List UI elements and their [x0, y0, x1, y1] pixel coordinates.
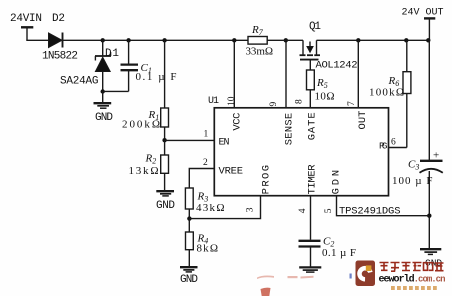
svg-text:eeworld.com.cn: eeworld.com.cn	[379, 274, 446, 286]
svg-text:0.1 µ F: 0.1 µ F	[136, 71, 177, 83]
svg-text:Q1: Q1	[309, 21, 321, 33]
ground below C2	[299, 267, 321, 272]
node junction D1	[101, 38, 105, 42]
svg-text:C3: C3	[408, 159, 419, 172]
svg-text:+: +	[433, 150, 439, 162]
resistor R4	[186, 219, 194, 267]
wire Q1 to OUT rail	[317, 39, 430, 41]
svg-text:AOL1242: AOL1242	[316, 60, 358, 72]
watermark blue tick	[350, 274, 352, 279]
diode D2	[49, 33, 63, 48]
svg-text:33mΩ: 33mΩ	[246, 46, 274, 58]
svg-text:R7: R7	[251, 24, 264, 37]
resistor R3	[185, 188, 193, 219]
svg-text:VREE: VREE	[219, 166, 244, 178]
svg-text:8kΩ: 8kΩ	[197, 243, 219, 255]
wire input to D2	[26, 39, 48, 41]
wire OUT pin7	[357, 40, 359, 108]
node 24VIN terminal	[21, 27, 33, 40]
svg-text:7: 7	[347, 101, 357, 106]
transistor Q1 MOSFET	[300, 40, 321, 70]
svg-text:4: 4	[298, 208, 308, 213]
wire R7 to Q1	[267, 39, 303, 41]
wire VREE pin2	[189, 169, 214, 189]
svg-text:100kΩ: 100kΩ	[369, 87, 404, 99]
ground below D1	[94, 92, 112, 109]
svg-text:8: 8	[295, 99, 305, 104]
svg-text:SENSE: SENSE	[284, 113, 296, 146]
svg-text:3: 3	[246, 207, 256, 212]
node junction below D1	[101, 89, 105, 93]
svg-text:43kΩ: 43kΩ	[196, 202, 225, 214]
wire D1 to C1 bottom	[103, 90, 129, 92]
svg-text:U1: U1	[208, 96, 219, 107]
svg-text:PROG: PROG	[261, 165, 273, 195]
svg-text:24VIN: 24VIN	[10, 13, 42, 25]
svg-text:10: 10	[227, 96, 237, 106]
svg-text:GND: GND	[95, 112, 113, 124]
node 24V OUT terminal	[424, 18, 435, 40]
node junction 24V OUT corner	[426, 38, 430, 42]
svg-text:1N5822: 1N5822	[42, 51, 78, 63]
svg-text:EN: EN	[219, 137, 230, 148]
logo icon square	[356, 261, 376, 287]
capacitor C1	[121, 40, 139, 91]
svg-text:R2: R2	[145, 153, 157, 166]
svg-text:OUT: OUT	[357, 111, 369, 130]
node junction R3 R4	[187, 216, 191, 220]
svg-text:D2: D2	[52, 13, 65, 25]
svg-text:100 µ F: 100 µ F	[392, 175, 433, 187]
svg-text:6: 6	[391, 137, 396, 147]
svg-text:9: 9	[269, 102, 279, 107]
resistor R1	[161, 40, 169, 140]
node junction VCC	[232, 38, 236, 42]
capacitor C2	[299, 241, 321, 267]
svg-text:0.1 µ F: 0.1 µ F	[322, 247, 356, 259]
svg-text:VCC: VCC	[232, 113, 244, 131]
logo chinese title (fake glyphs)	[380, 263, 444, 272]
watermark red dashes	[257, 276, 314, 280]
wire VCC pin10	[233, 40, 235, 108]
svg-text:SA24AG: SA24AG	[60, 76, 99, 88]
ground below R4	[180, 267, 198, 272]
svg-text:D1: D1	[105, 48, 119, 60]
svg-text:TPS2491DGS: TPS2491DGS	[339, 205, 401, 217]
capacitor C3 electrolytic	[420, 161, 443, 216]
wire PROG pin3	[189, 196, 260, 219]
svg-text:GDN: GDN	[331, 170, 343, 195]
svg-text:10Ω: 10Ω	[315, 91, 335, 103]
node junction OUT pin7	[356, 38, 360, 42]
ground below R2	[156, 191, 174, 196]
svg-text:PG: PG	[379, 141, 388, 152]
wire GDN pin5	[337, 196, 430, 216]
wire EN to pin1	[165, 139, 215, 141]
resistor R5	[307, 70, 315, 108]
wire D2 to R7	[63, 39, 248, 41]
node junction R6	[404, 38, 408, 42]
diode D1 (TVS)	[95, 40, 111, 91]
svg-text:200kΩ: 200kΩ	[122, 119, 160, 131]
resistor R7	[248, 37, 267, 45]
node junction EN	[162, 138, 166, 142]
wire TIMER pin4	[310, 196, 312, 240]
svg-text:24V OUT: 24V OUT	[402, 8, 444, 19]
node junction SENSE	[284, 38, 288, 42]
op-amp U1 IC body TPS2491DGS	[214, 108, 388, 196]
svg-text:GND: GND	[180, 274, 198, 286]
wire right rail down to C3	[428, 40, 430, 160]
node junction GDN rail	[427, 214, 431, 218]
node junction R1	[162, 38, 166, 42]
svg-text:13kΩ: 13kΩ	[129, 165, 159, 177]
ground bottom right	[420, 249, 441, 254]
svg-text:5: 5	[324, 208, 334, 213]
svg-text:TIMER: TIMER	[306, 164, 318, 195]
wire SENSE pin9	[285, 40, 287, 108]
node junction C1	[126, 38, 130, 42]
watermark red blob	[261, 288, 271, 296]
svg-text:2: 2	[203, 158, 208, 168]
logo orange tagline	[391, 286, 437, 290]
resistor R6	[403, 40, 411, 147]
svg-text:GND: GND	[156, 200, 175, 212]
svg-text:R5: R5	[316, 77, 328, 90]
wire to bottom right ground	[428, 216, 430, 249]
wire PG pin6	[389, 147, 407, 149]
svg-text:GATE: GATE	[306, 112, 318, 140]
svg-text:1: 1	[204, 130, 209, 140]
resistor R2	[161, 140, 169, 191]
